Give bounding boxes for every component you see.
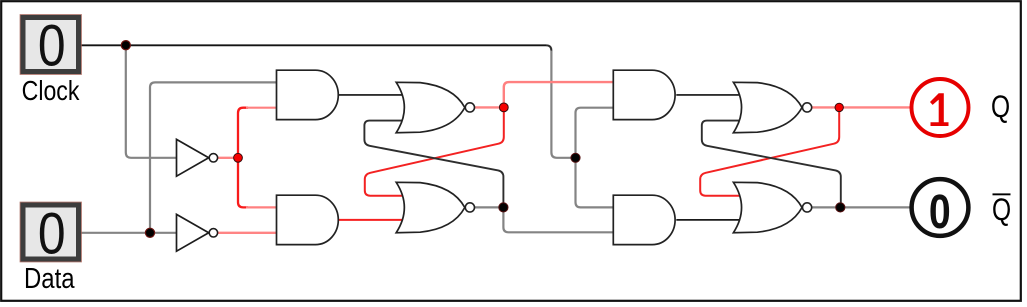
wire NOR1 output to node Qm <box>475 106 504 108</box>
node data junction <box>145 228 154 237</box>
wire NOR2 feedback cross to NOR1 bottom input <box>364 121 503 203</box>
node Qbar junction <box>836 203 845 212</box>
node Q junction <box>835 103 843 111</box>
svg-text:Data: Data <box>24 262 75 294</box>
node slave clock junction <box>571 153 580 162</box>
wire NOR4 output to node Qbar <box>812 206 840 208</box>
wire NOR3 output to node Q <box>812 106 839 108</box>
NOR gate U8 slave bottom <box>733 182 811 232</box>
svg-text:Clock: Clock <box>22 76 80 106</box>
NOR gate U3 master top <box>396 82 474 132</box>
wire clock node down to AND4 top input <box>576 158 614 208</box>
node Qm junction <box>499 103 508 112</box>
AND gate U2 master reset <box>277 195 339 244</box>
svg-text:0: 0 <box>38 14 66 78</box>
AND gate U5 slave set <box>613 70 675 119</box>
inverter NOT2 data <box>177 214 218 251</box>
wire AND3 output to NOR3 <box>676 94 742 96</box>
wire Qm up to AND3 top input <box>504 82 614 107</box>
svg-text:Q: Q <box>991 88 1010 124</box>
wire clock horizontal top <box>81 44 546 46</box>
wire NOT1 output to node <box>218 157 239 159</box>
wire data to AND1 top input <box>150 82 277 232</box>
NOR gate U4 master bottom <box>396 182 474 232</box>
AND gate U1 master set <box>277 70 339 119</box>
wire NOR4 feedback cross to NOR3 bottom input <box>702 121 841 203</box>
wire data to NOT2 <box>81 232 177 234</box>
svg-text:0: 0 <box>929 185 951 239</box>
wire notclock up to AND1 bottom input <box>238 108 248 158</box>
wire node Q to output circle <box>839 106 910 108</box>
output Qbar circle <box>912 179 969 239</box>
input Clock box <box>20 14 81 78</box>
wire Q cross to NOR4 top input <box>700 107 839 195</box>
node Qmbar junction <box>499 203 508 212</box>
wire NOT2 output to AND2 bottom input <box>218 232 277 234</box>
svg-text:0: 0 <box>38 202 66 266</box>
wire node Qbar to output circle <box>840 206 910 208</box>
wire NOR2 output to node <box>475 206 504 208</box>
inverter NOT1 clock <box>177 139 218 176</box>
wire AND4 output to NOR4 <box>676 219 742 221</box>
wire Qm cross to NOR2 top input <box>365 107 504 195</box>
node notclock junction <box>234 153 243 162</box>
wire clock to NOT1 <box>126 45 177 158</box>
AND gate U6 slave reset <box>613 195 675 244</box>
wire clock vertical to slave <box>546 45 576 158</box>
svg-text:Q: Q <box>992 191 1011 227</box>
wire Qmbar to AND4 bottom input <box>503 207 613 232</box>
input Data box <box>20 202 81 266</box>
label Qbar <box>992 191 1011 227</box>
wire AND1 output to NOR1 <box>339 94 405 96</box>
wire clock node up to AND3 bottom input <box>576 108 614 158</box>
NOR gate U7 slave top <box>733 82 811 132</box>
wire AND2 output to NOR2 <box>339 219 405 221</box>
wire notclock down to AND2 top input <box>238 158 248 208</box>
output Q circle <box>912 79 969 136</box>
node clock junction <box>121 41 130 50</box>
